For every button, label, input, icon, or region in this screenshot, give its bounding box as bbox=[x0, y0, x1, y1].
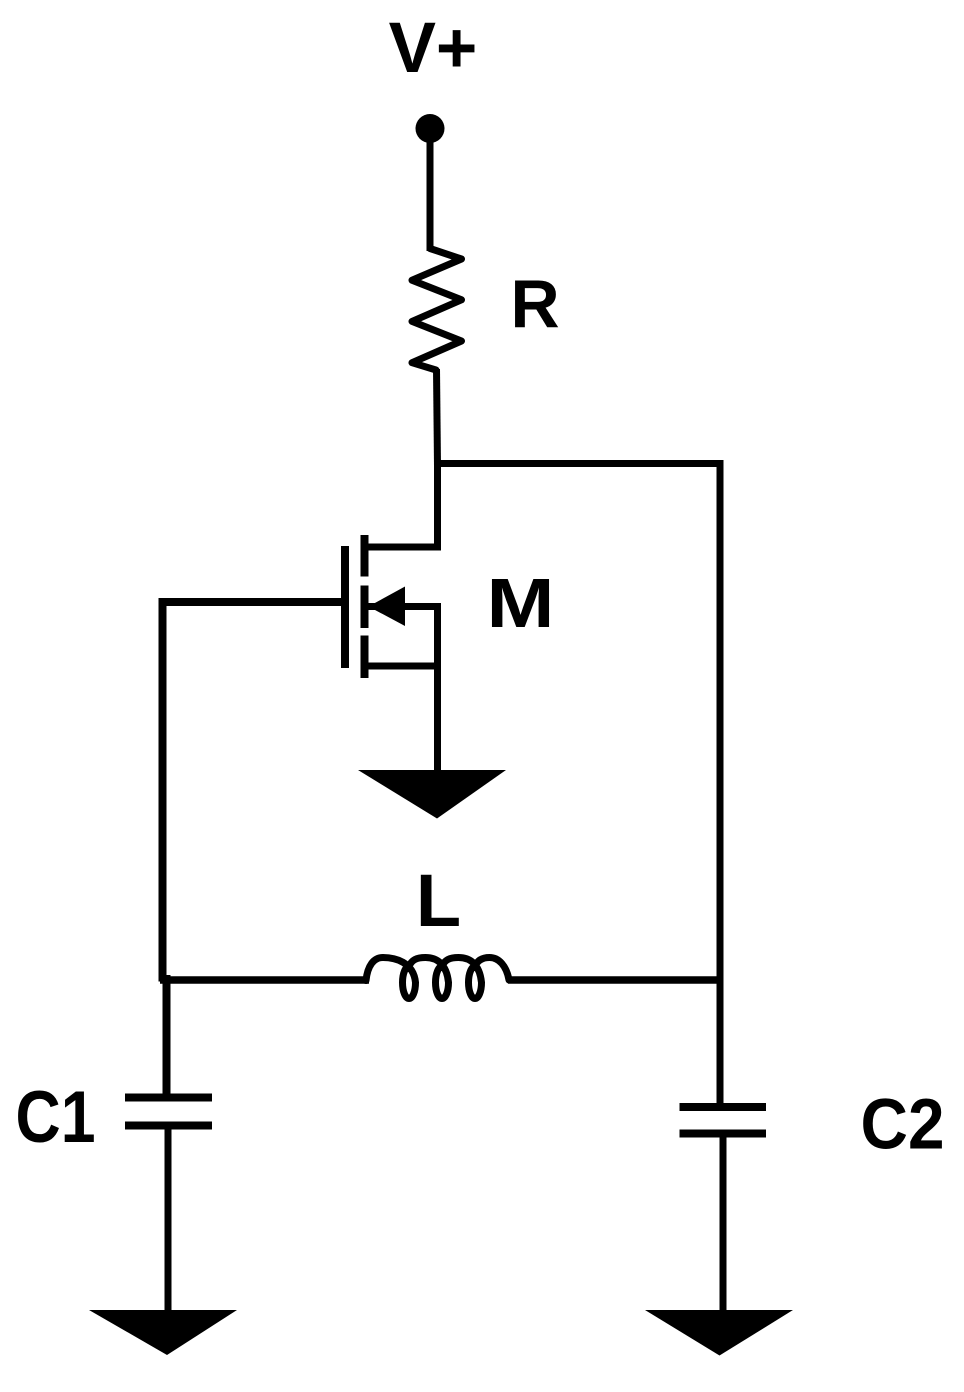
drain horizontal lead bbox=[364, 544, 438, 551]
transistor M bbox=[345, 463, 438, 773]
terminal dot at V+ bbox=[416, 114, 445, 143]
body-source vertical bbox=[434, 603, 441, 773]
wire left branch vertical lower to C1 bbox=[163, 975, 171, 1100]
svg-text:M: M bbox=[487, 564, 555, 642]
wire inductor left lead bbox=[160, 976, 369, 984]
svg-text:R: R bbox=[510, 266, 559, 342]
drain vertical lead bbox=[434, 463, 441, 551]
svg-text:C2: C2 bbox=[861, 1086, 945, 1165]
wire right branch vertical bbox=[717, 460, 724, 1107]
C2 top plate bbox=[680, 1103, 767, 1111]
source horizontal lead bbox=[364, 663, 438, 670]
ground under C1 bbox=[89, 1310, 237, 1355]
svg-text:C1: C1 bbox=[16, 1077, 96, 1158]
wire V+ to resistor bbox=[427, 130, 434, 251]
svg-text:V+: V+ bbox=[389, 9, 478, 88]
svg-text:L: L bbox=[416, 859, 461, 942]
C1 bottom plate bbox=[125, 1122, 212, 1130]
wire left branch vertical upper bbox=[159, 599, 167, 982]
C1 top plate bbox=[125, 1094, 212, 1102]
channel bar middle segment bbox=[361, 586, 369, 629]
wire resistor to drain node bbox=[437, 369, 438, 466]
capacitor C1 bbox=[125, 1098, 212, 1126]
wire gate lead bbox=[159, 598, 350, 606]
inductor L bbox=[366, 958, 509, 999]
ground under C2 bbox=[645, 1310, 793, 1356]
wire C2 to ground bbox=[720, 1133, 727, 1312]
wire drain node to right branch (top horizontal) bbox=[434, 460, 723, 467]
body arrowhead bbox=[369, 587, 406, 627]
C2 bottom plate bbox=[680, 1130, 767, 1138]
capacitor C2 bbox=[680, 1107, 767, 1134]
ground under transistor source bbox=[358, 770, 506, 819]
wire C1 to ground bbox=[165, 1125, 172, 1312]
wire inductor right lead bbox=[508, 976, 723, 984]
resistor R bbox=[412, 249, 462, 371]
channel bar top segment bbox=[361, 535, 369, 577]
body line bbox=[368, 603, 438, 610]
gate bar bbox=[341, 546, 349, 668]
channel bar bottom segment bbox=[361, 636, 369, 679]
